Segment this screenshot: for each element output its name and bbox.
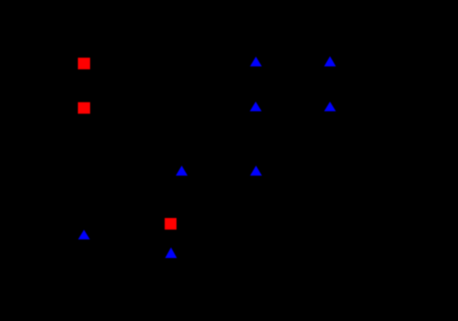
node marker: blue triangle T1 bbox=[250, 57, 262, 67]
node marker: red square S1 bbox=[78, 58, 90, 70]
node marker: blue triangle T7 bbox=[78, 230, 90, 240]
node marker: blue triangle T3 bbox=[250, 102, 262, 112]
node marker: blue triangle T6 bbox=[250, 166, 262, 176]
node marker: blue triangle T8 bbox=[165, 247, 177, 258]
node marker: red square S2 bbox=[78, 102, 90, 114]
node marker: red square S3 bbox=[165, 218, 177, 230]
node marker: blue triangle T2 bbox=[324, 56, 336, 66]
node marker: blue triangle T4 bbox=[324, 102, 336, 112]
node marker: blue triangle T5 bbox=[176, 166, 188, 176]
